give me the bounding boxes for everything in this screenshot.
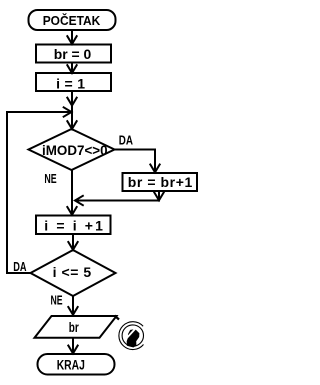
- svg-text:br = br+1: br = br+1: [128, 174, 193, 190]
- svg-text:KRAJ: KRAJ: [57, 358, 85, 373]
- wire: DA branch of decision 1 right and down into box br=br+1, arrow down: [115, 150, 156, 172]
- process box br = br+1: [123, 173, 198, 191]
- wire: NE branch of decision 2 down to output, arrow down: [72, 296, 74, 314]
- badge inner ring: [122, 325, 143, 346]
- svg-text:i <= 5: i <= 5: [53, 264, 92, 280]
- badge spiral tail dash: [115, 316, 120, 320]
- terminator KRAJ (end): [38, 354, 115, 375]
- svg-text:i = i +1: i = i +1: [44, 218, 103, 234]
- wire: start to box br=0, arrow down: [71, 30, 73, 43]
- process box i = 1: [36, 73, 111, 91]
- svg-text:i = 1: i = 1: [56, 75, 85, 91]
- decision diamond 2 i<=5: [31, 250, 116, 296]
- process box br = 0: [36, 45, 111, 63]
- terminator POCETAK (start): [29, 10, 116, 30]
- svg-text:POČETAK: POČETAK: [43, 13, 101, 28]
- badge outer arc: [119, 322, 144, 350]
- badge glyph notch: [126, 328, 135, 338]
- decision diamond 1 iMOD7<>0: [29, 129, 115, 170]
- wire: box i=i+1 to decision 2, arrow down: [72, 234, 74, 249]
- svg-text:br: br: [69, 319, 79, 335]
- wire: loop return from decision 2 DA branch up left side into junction, arrow right: [7, 112, 70, 273]
- svg-text:NE: NE: [50, 294, 62, 308]
- wire: box br=br+1 down and left back to main line, arrow left: [76, 191, 160, 201]
- wire: NE branch of decision 1 down to box i=i+1, arrow down: [71, 170, 73, 214]
- wire: box i=1 down to decision 1 through loop junction: [71, 91, 73, 129]
- wire: box br=0 to box i=1, arrow down: [71, 63, 73, 73]
- svg-text:DA: DA: [13, 260, 26, 274]
- svg-text:NE: NE: [44, 172, 56, 186]
- svg-text:br = 0: br = 0: [54, 46, 92, 62]
- svg-text:DA: DA: [119, 133, 133, 147]
- svg-text:iMOD7<>0: iMOD7<>0: [42, 142, 108, 158]
- process box i = i +1: [36, 216, 111, 235]
- badge glyph: [127, 329, 140, 347]
- wire: output to terminator KRAJ, arrow down: [72, 338, 74, 353]
- output parallelogram br: [35, 316, 117, 338]
